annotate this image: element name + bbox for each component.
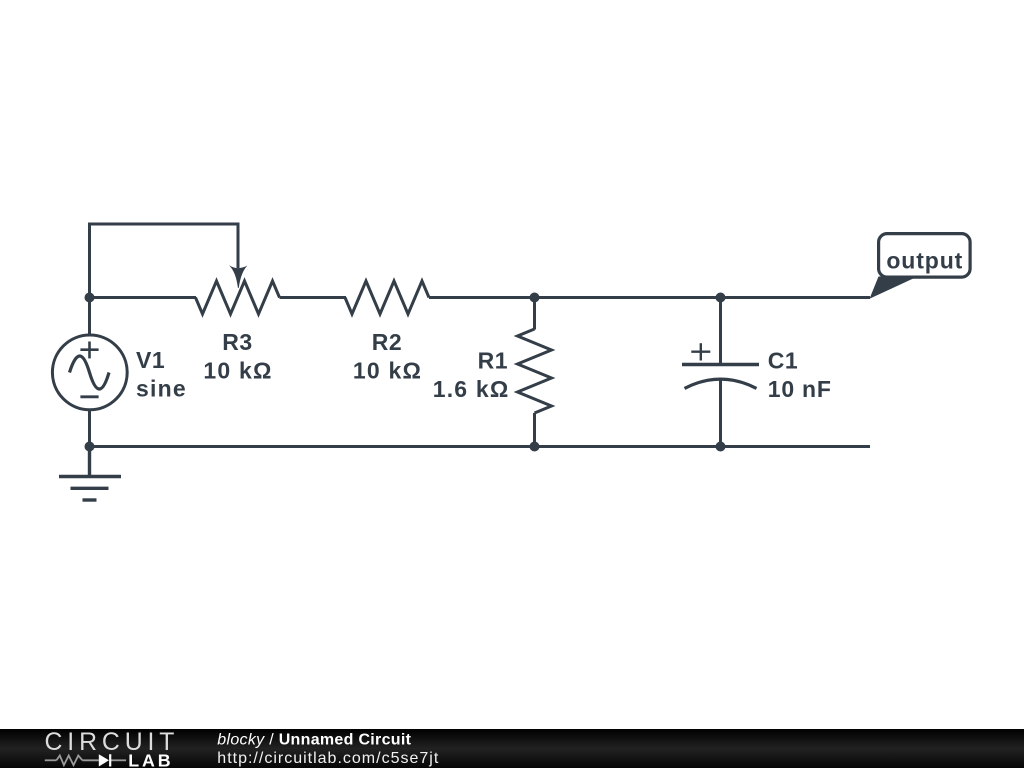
resistor R1 zigzag [518,329,552,413]
wire V1 bottom to ground node [88,410,91,447]
node junction C1 top [716,293,726,303]
svg-text:10 kΩ: 10 kΩ [203,357,272,383]
node junction V1 top [85,293,95,303]
capacitor C1 top stub [719,298,722,365]
resistor R2 zigzag [345,281,429,314]
svg-text:R3: R3 [222,329,252,355]
svg-text:1.6 kΩ: 1.6 kΩ [433,376,510,402]
svg-text:10 nF: 10 nF [768,376,832,402]
ground symbol [59,447,121,501]
svg-text:V1: V1 [136,347,165,373]
resistor R1 bottom stub [533,413,536,447]
capacitor C1 plus sign [691,343,710,360]
logo diode symbol [99,754,109,766]
wire R3 to R2 [280,296,347,299]
node junction R1 bottom [530,442,540,452]
svg-text:LAB: LAB [128,751,173,768]
wire top loop from V1 top to potentiometer wiper [90,224,239,335]
V1 sine waveform [70,356,110,389]
voltage source V1 circle [52,335,127,410]
svg-text:blocky / Unnamed Circuit: blocky / Unnamed Circuit [217,732,411,749]
node junction R1 top [530,293,540,303]
capacitor C1 top plate [682,363,759,366]
capacitor C1 bottom curved plate [685,379,757,388]
svg-text:output: output [886,247,963,273]
wire R2 to output flag [429,296,870,299]
capacitor C1 bottom stub [719,380,722,447]
potentiometer wiper arrowhead [229,265,247,288]
node junction ground [85,442,95,452]
V1 minus sign [80,395,98,398]
svg-text:http://circuitlab.com/c5se7jt: http://circuitlab.com/c5se7jt [217,750,439,767]
wire node A to R3 left terminal [90,296,197,299]
resistor R3 zigzag [196,281,280,314]
V1 plus sign [80,342,98,359]
svg-text:R2: R2 [372,329,402,355]
resistor R1 top stub [533,298,536,330]
svg-text:C1: C1 [768,348,798,374]
svg-text:R1: R1 [478,348,508,374]
output flag box [879,234,971,278]
output flag tail [870,277,918,299]
svg-text:10 kΩ: 10 kΩ [353,357,422,383]
node junction C1 bottom [716,442,726,452]
logo resistor-diode line [45,756,126,766]
bottom rail wire [90,445,871,448]
svg-text:sine: sine [136,376,187,402]
